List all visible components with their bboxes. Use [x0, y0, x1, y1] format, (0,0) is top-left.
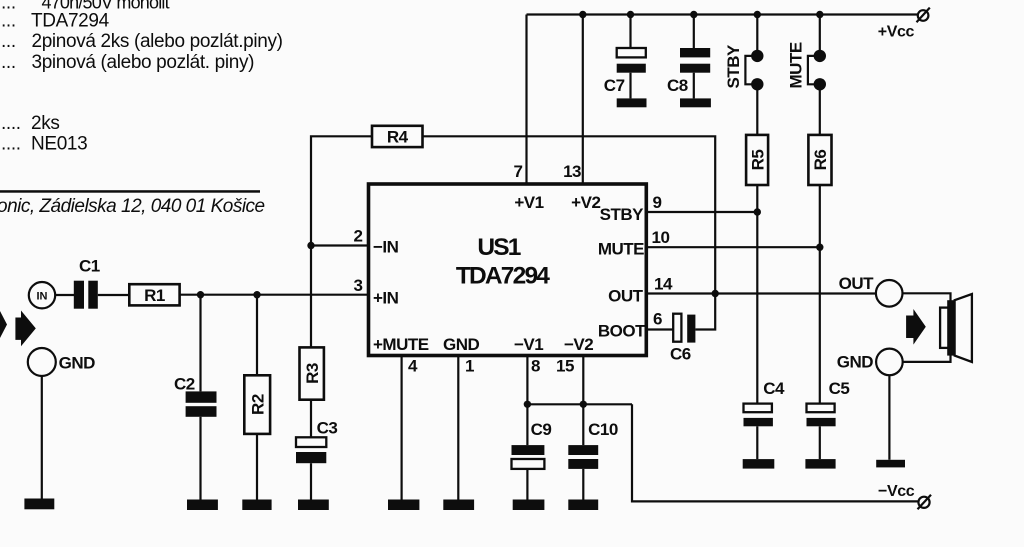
- svg-text:NE013: NE013: [31, 133, 87, 154]
- svg-text:US1: US1: [477, 234, 520, 261]
- svg-text:R3: R3: [303, 363, 322, 384]
- wire pin 14 OUT: [646, 292, 876, 294]
- switch MUTE: [808, 50, 826, 91]
- node -IN: [307, 242, 314, 249]
- wire R2 branch: [256, 295, 258, 376]
- wire GND output to ground: [888, 375, 890, 460]
- svg-text:C5: C5: [829, 379, 850, 398]
- svg-text:R4: R4: [387, 128, 409, 147]
- svg-text:7: 7: [514, 162, 523, 181]
- wire C9 to ground: [526, 469, 528, 500]
- svg-text:R5: R5: [748, 150, 767, 171]
- svg-text:C3: C3: [317, 419, 338, 438]
- wire C10 to ground: [582, 469, 584, 500]
- speaker: [940, 294, 972, 362]
- input arrow: [15, 311, 35, 347]
- svg-text:10: 10: [652, 228, 670, 247]
- svg-text:BOOT: BOOT: [598, 321, 646, 340]
- terminal -Vcc: [918, 495, 932, 510]
- wire C3 to ground: [310, 463, 312, 500]
- ground (R2): [242, 500, 271, 511]
- capacitor C4: [744, 404, 773, 427]
- capacitor C10: [568, 445, 598, 469]
- switch STBY: [745, 50, 763, 91]
- wire GND output to speaker: [903, 348, 951, 362]
- wire R1 to IC pin 3: [180, 294, 369, 296]
- capacitor C1: [74, 281, 98, 309]
- svg-text:3: 3: [354, 276, 363, 295]
- svg-text:GND: GND: [443, 335, 480, 354]
- wire IN to C1: [55, 294, 74, 296]
- ground (C10): [568, 500, 598, 511]
- svg-text:IN: IN: [37, 290, 48, 302]
- wire pin 9: [646, 211, 757, 213]
- svg-text:TDA7294: TDA7294: [31, 11, 110, 32]
- svg-text:C7: C7: [604, 76, 625, 95]
- ground (C4): [743, 459, 775, 469]
- ground (input GND): [24, 499, 54, 510]
- svg-text:2ks: 2ks: [31, 113, 60, 134]
- svg-text:1: 1: [465, 357, 474, 376]
- wire R6 to MUTE node: [819, 185, 821, 247]
- svg-text:R6: R6: [811, 150, 830, 171]
- svg-text:13: 13: [563, 162, 581, 181]
- +Vcc rail: [527, 13, 918, 15]
- svg-text:C10: C10: [588, 420, 618, 439]
- svg-text:STBY: STBY: [600, 205, 645, 224]
- resistor R2: [244, 375, 270, 434]
- svg-text:+V2: +V2: [571, 193, 600, 212]
- wire C6 to OUT net: [695, 294, 715, 330]
- node MUTE pin 10: [816, 244, 823, 251]
- svg-text:−V1: −V1: [514, 335, 543, 354]
- svg-text:+Vcc: +Vcc: [878, 24, 915, 41]
- wire rail to MUTE switch: [819, 15, 821, 53]
- wire C1 to R1: [98, 294, 130, 296]
- node pin13/rail: [579, 11, 586, 18]
- resistor R3: [300, 347, 324, 399]
- svg-text:9: 9: [653, 193, 662, 212]
- capacitor C3: [296, 437, 326, 463]
- wire -V rail: [527, 403, 632, 405]
- ground (C8): [680, 98, 711, 107]
- svg-text:3pinová (alebo pozlát. piny): 3pinová (alebo pozlát. piny): [32, 52, 255, 73]
- resistor R1: [129, 284, 179, 305]
- node STBY switch/rail: [754, 11, 761, 18]
- node MUTE switch/rail: [816, 11, 823, 18]
- wire -IN node to pin 2: [311, 244, 369, 246]
- svg-text:+V1: +V1: [514, 193, 543, 212]
- wire C2 branch: [199, 295, 201, 392]
- wire R3 to C3: [310, 400, 312, 438]
- wire pin 8 to C9: [526, 356, 528, 446]
- svg-text:...: ...: [1, 52, 16, 73]
- connector IN: [29, 282, 55, 308]
- wire rail to STBY switch: [756, 15, 758, 53]
- svg-text:C6: C6: [670, 345, 691, 364]
- capacitor C7: [617, 48, 646, 73]
- node pin 15 / -V rail: [580, 401, 587, 408]
- node R2 tap: [253, 291, 260, 298]
- wire -V rail to -Vcc: [632, 404, 918, 501]
- wire C5 to ground: [819, 426, 821, 459]
- svg-text:+MUTE: +MUTE: [373, 335, 429, 354]
- ground (pin 1): [443, 500, 474, 511]
- wire MUTE node to C5: [819, 247, 821, 403]
- resistor R6: [808, 135, 831, 185]
- svg-text:GND: GND: [59, 354, 96, 373]
- ground (C9): [513, 500, 545, 511]
- wire pin 13 to +Vcc rail: [582, 15, 584, 185]
- capacitor C5: [807, 404, 836, 427]
- svg-text:R2: R2: [248, 394, 267, 415]
- wire pin 7 to +Vcc rail: [525, 15, 527, 185]
- edge arrow fragment: [0, 311, 7, 338]
- wire C2 to ground: [199, 417, 201, 500]
- terminal +Vcc: [917, 8, 930, 23]
- wire GND input to ground: [41, 376, 43, 499]
- svg-text:+IN: +IN: [373, 289, 399, 308]
- node pin 8 / -V rail: [524, 401, 531, 408]
- op-amp IC US1 box: [369, 184, 647, 356]
- node C2 tap: [197, 291, 204, 298]
- wire OUT to speaker: [903, 293, 951, 307]
- svg-text:....: ....: [1, 133, 21, 154]
- resistor R4: [372, 126, 423, 147]
- svg-text:GND: GND: [837, 353, 874, 372]
- svg-text:2: 2: [354, 226, 363, 245]
- resistor R5: [746, 135, 768, 185]
- svg-text:OUT: OUT: [608, 286, 644, 305]
- wire rail to C8: [693, 15, 695, 49]
- svg-text:14: 14: [654, 274, 673, 293]
- wire R2 to ground: [256, 434, 258, 500]
- ground (C2): [187, 500, 218, 511]
- svg-text:R1: R1: [144, 286, 165, 305]
- svg-text:2pinová 2ks (alebo pozlát.piny: 2pinová 2ks (alebo pozlát.piny): [32, 31, 283, 52]
- svg-text:...: ...: [1, 11, 16, 32]
- svg-text:15: 15: [556, 357, 574, 376]
- capacitor C6: [673, 314, 695, 343]
- capacitor C8: [680, 48, 710, 73]
- output arrow: [906, 309, 926, 345]
- capacitor C2: [186, 391, 217, 416]
- wire pin 1 to ground: [457, 356, 459, 500]
- wire C8 to ground: [693, 73, 695, 99]
- svg-text:....: ....: [1, 113, 21, 134]
- svg-text:STBY: STBY: [724, 44, 743, 89]
- svg-text:OUT: OUT: [839, 274, 875, 293]
- svg-text:TDA7294: TDA7294: [456, 263, 550, 290]
- svg-text:MUTE: MUTE: [787, 42, 806, 88]
- node OUT/R4/C6: [712, 290, 719, 297]
- ground (pin 4): [388, 500, 419, 511]
- connector GND (output): [876, 349, 903, 376]
- wire R4 right to OUT net: [423, 136, 716, 293]
- ground (C7): [617, 98, 647, 107]
- ground (C5): [805, 459, 835, 469]
- svg-text:...: ...: [1, 31, 16, 52]
- svg-text:6: 6: [653, 309, 662, 328]
- capacitor C9: [512, 445, 545, 469]
- svg-text:4: 4: [408, 357, 418, 376]
- ground (R3/C3): [298, 500, 329, 511]
- wire STBY node to C4: [756, 212, 758, 404]
- wire C7 to ground: [629, 73, 631, 99]
- wire pin 15 to C10: [582, 356, 584, 446]
- svg-text:−IN: −IN: [373, 238, 399, 257]
- node STBY pin 9: [754, 208, 761, 215]
- svg-text:MUTE: MUTE: [598, 239, 644, 258]
- svg-text:−V2: −V2: [564, 335, 593, 354]
- connector GND (input): [28, 348, 56, 376]
- parts list text: [1, 0, 283, 154]
- wire rail to C7: [629, 15, 631, 49]
- ground (GND output): [876, 460, 905, 468]
- svg-text:C2: C2: [174, 375, 195, 394]
- svg-text:−Vcc: −Vcc: [878, 483, 915, 500]
- node C7/rail: [627, 11, 634, 18]
- svg-text:C4: C4: [763, 379, 785, 398]
- svg-text:onic, Zádielska 12, 040 01 Koš: onic, Zádielska 12, 040 01 Košice: [0, 196, 265, 217]
- wire C4 to ground: [756, 426, 758, 459]
- svg-text:C1: C1: [79, 256, 100, 275]
- wire pin 6 BOOT to C6: [646, 328, 673, 330]
- address rule: [0, 190, 260, 193]
- wire STBY switch to R5: [756, 84, 758, 135]
- wire pin 4 to ground: [401, 356, 403, 500]
- node C8/rail: [690, 11, 697, 18]
- wire MUTE switch to R6: [819, 84, 821, 135]
- connector OUT: [876, 280, 903, 307]
- wire R4 left to -IN node to R3: [311, 136, 372, 347]
- wire pin 10: [646, 246, 820, 248]
- svg-text:C9: C9: [531, 420, 552, 439]
- svg-text:8: 8: [531, 357, 540, 376]
- svg-text:C8: C8: [667, 76, 688, 95]
- wire R5 to STBY node: [756, 185, 758, 212]
